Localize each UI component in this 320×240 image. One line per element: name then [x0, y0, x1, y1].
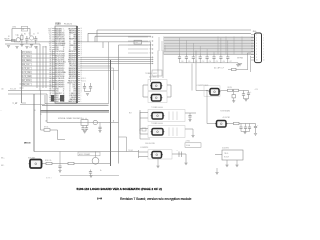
ground [244, 98, 247, 100]
svg-text:C53: C53 [202, 61, 205, 63]
label box [185, 143, 201, 148]
svg-text:8-44: 8-44 [97, 198, 103, 201]
svg-text:OE: OE [49, 95, 51, 97]
svg-text:14: 14 [69, 82, 71, 84]
svg-text:Revision 7 Board; version w/o: Revision 7 Board; version w/o encryption… [120, 197, 192, 201]
box T2 [148, 126, 185, 138]
svg-text:4 MHz: 4 MHz [12, 26, 16, 28]
svg-text:+: + [257, 125, 258, 127]
svg-text:B3: B3 [49, 82, 51, 84]
svg-text:20: 20 [63, 68, 65, 70]
svg-text:17: 17 [63, 62, 65, 64]
wire [139, 110, 141, 134]
ground [86, 93, 89, 95]
resistor R110 [232, 68, 237, 70]
capacitor C132 [189, 113, 191, 115]
svg-text:+5 VDC: +5 VDC [185, 141, 190, 143]
svg-text:10: 10 [256, 60, 258, 62]
wire [94, 36, 96, 42]
wire [185, 128, 193, 130]
svg-text:RC3/SCK: RC3/SCK [70, 76, 78, 78]
svg-text:Q1: Q1 [17, 35, 19, 37]
small box circuit [152, 70, 162, 76]
label box audio [78, 152, 100, 156]
svg-text:18: 18 [63, 64, 65, 66]
svg-text:32: 32 [69, 45, 71, 47]
svg-text:39: 39 [69, 30, 71, 32]
svg-text:22: 22 [69, 66, 71, 68]
wire [45, 46, 47, 88]
capacitor C140 [243, 91, 245, 94]
svg-text:D2: D2 [150, 45, 152, 47]
svg-text:26: 26 [69, 57, 71, 59]
wire [140, 112, 148, 114]
wire [185, 154, 187, 163]
wire [102, 42, 104, 48]
ground [225, 164, 228, 166]
bus double line [41, 110, 110, 112]
U100 pin stubs and numbers right [77, 28, 82, 103]
wire [41, 129, 45, 131]
opto U101 [150, 85, 151, 87]
ground [89, 175, 92, 177]
ground [58, 170, 61, 172]
microphone MK100 [29, 163, 30, 165]
svg-text:12: 12 [63, 51, 65, 53]
resistor R100 [12, 39, 16, 41]
bus internal verticals [218, 37, 242, 55]
svg-text:RB3/PGM: RB3/PGM [69, 39, 77, 41]
wire [20, 104, 45, 106]
svg-text:D4: D4 [49, 60, 51, 62]
svg-text:14: 14 [63, 55, 65, 57]
svg-text:16: 16 [69, 78, 71, 80]
junction [110, 122, 111, 123]
svg-text:CE: CE [49, 93, 51, 95]
inductor L1 [209, 91, 210, 93]
wire [241, 131, 250, 133]
wire [247, 53, 249, 70]
U100 pin names right column [67, 28, 77, 103]
transistor Q100 [16, 38, 20, 42]
svg-text:PIC16C74: PIC16C74 [64, 23, 72, 25]
svg-text:VSS: VSS [73, 49, 76, 51]
svg-text:FL100: FL100 [186, 145, 190, 147]
wire bus top1 [97, 29, 251, 31]
svg-text:C2: C2 [37, 33, 39, 35]
svg-text:C57: C57 [229, 61, 232, 63]
ground [191, 134, 194, 136]
transistor Q103 [92, 157, 99, 164]
svg-text:38: 38 [69, 32, 71, 34]
svg-text:40: 40 [69, 28, 71, 30]
svg-text:VDD: VDD [48, 28, 51, 30]
U100 outer pin net labels left [48, 28, 51, 103]
wire [42, 46, 44, 88]
svg-text:RB4: RB4 [73, 37, 76, 39]
wire [113, 68, 115, 90]
svg-text:16: 16 [63, 60, 65, 62]
wire [42, 163, 111, 165]
svg-text:RE2/CS: RE2/CS [71, 93, 77, 95]
svg-text:MIC-: MIC- [1, 165, 5, 167]
svg-text:Q2: Q2 [29, 33, 31, 35]
resistor R132 [44, 129, 50, 132]
capacitor C133 [98, 126, 101, 128]
wire [157, 159, 159, 166]
svg-text:26: 26 [63, 80, 65, 82]
wire [118, 45, 120, 164]
svg-text:D5: D5 [49, 62, 51, 64]
wire [207, 123, 256, 125]
wire [96, 30, 98, 42]
inductor L2 [215, 123, 216, 125]
wire [143, 84, 148, 86]
diode D1 [232, 95, 235, 98]
wire [5, 40, 16, 42]
svg-text:13: 13 [63, 53, 65, 55]
svg-text:15: 15 [69, 80, 71, 82]
wire long vertical mid [110, 60, 112, 166]
svg-text:35: 35 [69, 39, 71, 41]
resistor R120 [228, 89, 233, 91]
ground [188, 119, 191, 121]
svg-text:R2: R2 [24, 34, 26, 36]
svg-text:R9 10k: R9 10k [44, 126, 49, 128]
crystal Y100 box [21, 26, 27, 31]
wire [244, 98, 249, 100]
svg-text:TO SW: TO SW [128, 150, 133, 152]
wire [80, 56, 152, 58]
svg-text:R8 220: R8 220 [228, 87, 233, 89]
wire [80, 60, 152, 62]
wire [80, 63, 152, 65]
resistor R122 [234, 122, 240, 124]
box ISO2 [148, 92, 167, 103]
svg-text:C55: C55 [216, 61, 219, 63]
svg-text:C51: C51 [188, 61, 191, 63]
IC U100 body [55, 26, 77, 103]
svg-text:29: 29 [63, 87, 65, 89]
svg-text:C120 .1: C120 .1 [81, 78, 86, 80]
svg-text:34: 34 [69, 41, 71, 43]
svg-text:B+: B+ [100, 170, 102, 172]
svg-text:C1: C1 [33, 34, 35, 36]
svg-text:19: 19 [69, 72, 71, 74]
opto U102 [150, 97, 151, 99]
wire [87, 33, 89, 42]
ground [236, 64, 240, 66]
svg-text:CLK: CLK [48, 32, 51, 34]
capacitor C150 [59, 164, 61, 166]
svg-text:D7: D7 [49, 66, 51, 68]
svg-text:RE1/WR: RE1/WR [70, 95, 77, 97]
svg-text:28: 28 [69, 53, 71, 55]
wire [191, 64, 193, 91]
resistor R130 [46, 162, 52, 164]
wire [185, 112, 196, 114]
svg-text:23: 23 [63, 74, 65, 76]
connector table left edge [21, 50, 23, 103]
svg-text:WR: WR [49, 43, 51, 45]
svg-text:22: 22 [63, 72, 65, 74]
band pin ticks [128, 36, 154, 55]
wire [8, 93, 47, 95]
svg-text:28: 28 [63, 84, 65, 86]
svg-text:+: + [250, 92, 251, 94]
svg-text:32: 32 [63, 93, 65, 95]
wire [47, 122, 119, 124]
wire [196, 90, 249, 92]
svg-text:VSS: VSS [55, 49, 58, 51]
svg-text:15: 15 [63, 57, 65, 59]
svg-text:21: 21 [69, 68, 71, 70]
tick [20, 83, 24, 85]
svg-text:L3 FERRITE: L3 FERRITE [140, 147, 148, 149]
svg-text:C50: C50 [181, 61, 184, 63]
wire [60, 175, 119, 177]
wire [22, 102, 27, 104]
capacitor row C10x [178, 54, 232, 63]
svg-text:13: 13 [69, 84, 71, 86]
wire [11, 29, 13, 41]
box bottom double line [45, 103, 109, 105]
svg-text:RB4: RB4 [55, 101, 58, 103]
wire [59, 152, 61, 164]
wire [39, 44, 41, 91]
svg-text:17: 17 [69, 76, 71, 78]
ground [215, 171, 218, 173]
wire [82, 129, 84, 130]
wire long vertical [33, 94, 35, 152]
wire [234, 62, 238, 64]
svg-text:10: 10 [63, 47, 65, 49]
capacitor C120 [84, 83, 86, 86]
svg-text:T1 XFMR 600:600: T1 XFMR 600:600 [151, 107, 163, 109]
svg-text:B2: B2 [49, 41, 51, 43]
svg-text:R130 2.2k: R130 2.2k [45, 160, 52, 162]
label box [134, 40, 142, 44]
svg-text:18: 18 [69, 74, 71, 76]
U100 pin stubs and numbers left [50, 28, 55, 103]
ground [98, 130, 101, 132]
wire [85, 91, 91, 93]
box right edge [108, 42, 110, 104]
svg-text:31: 31 [69, 47, 71, 49]
svg-text:D0: D0 [49, 51, 51, 53]
svg-text:RB1: RB1 [55, 95, 58, 97]
capacitor C146 polarized [178, 152, 180, 158]
svg-text:D1: D1 [150, 41, 152, 43]
svg-text:RC5/SDO: RC5/SDO [69, 64, 77, 66]
ground [232, 100, 235, 102]
svg-text:VSS: VSS [55, 89, 58, 91]
wire [40, 112, 42, 130]
connector J100 pins [251, 35, 265, 62]
svg-text:D2: D2 [49, 55, 51, 57]
capacitor C144 [249, 124, 251, 127]
box left edge [44, 95, 46, 104]
svg-text:29: 29 [69, 51, 71, 53]
wire [36, 46, 38, 88]
wire [8, 90, 55, 92]
U100 dense bottom bars [51, 95, 54, 102]
connector table right edge [52, 50, 54, 88]
svg-text:Y1: Y1 [22, 29, 24, 31]
svg-text:B: B [35, 110, 36, 112]
winding ticks [168, 112, 170, 121]
svg-text:RB6/PGC: RB6/PGC [70, 32, 78, 34]
svg-text:D1: D1 [49, 53, 51, 55]
wire [34, 151, 139, 153]
wire [126, 137, 128, 152]
bus verticals to capacitor row [180, 38, 228, 54]
wire [5, 43, 40, 45]
svg-text:OSC1: OSC1 [72, 87, 76, 89]
ground [30, 44, 33, 46]
svg-text:12: 12 [69, 87, 71, 89]
svg-text:RB2: RB2 [55, 97, 58, 99]
wire [236, 160, 238, 165]
ground [238, 63, 242, 65]
net name rows [22, 51, 55, 86]
svg-text:OSC2: OSC2 [72, 84, 76, 86]
capacitor C101 [35, 36, 37, 38]
svg-text:MIC+: MIC+ [1, 158, 5, 160]
capacitor C131 [86, 125, 88, 127]
svg-text:B4: B4 [49, 84, 51, 86]
capacitor C141 polarized [248, 91, 250, 93]
svg-text:U100: U100 [55, 24, 61, 26]
svg-text:U101 4N35: U101 4N35 [149, 76, 156, 78]
ground [254, 133, 257, 135]
svg-text:11: 11 [63, 49, 65, 51]
wire VDD rail [14, 41, 151, 43]
wire [80, 65, 111, 67]
capacitor C130 [82, 125, 84, 127]
wire [172, 153, 186, 155]
capacitor ground bus [180, 62, 235, 64]
wire [39, 90, 42, 92]
wire [95, 152, 97, 158]
wire [216, 168, 218, 172]
svg-text:5100-110 PWB: 5100-110 PWB [145, 143, 155, 145]
band left edge wire [150, 42, 152, 82]
wire [195, 51, 197, 91]
svg-text:27: 27 [69, 55, 71, 57]
svg-text:D3: D3 [49, 57, 51, 59]
transistor Q101 [30, 36, 34, 40]
wire [162, 51, 164, 79]
box T1 [148, 110, 185, 122]
svg-text:RC4/SDI: RC4/SDI [70, 66, 77, 68]
svg-text:WE: WE [49, 97, 51, 99]
svg-text:5100-110 LOGIC BOARD VER A SCH: 5100-110 LOGIC BOARD VER A SCHEMATIC (PA… [77, 187, 162, 191]
ground [15, 46, 18, 48]
wire [119, 44, 152, 46]
svg-text:MCLR: MCLR [5, 38, 11, 40]
svg-text:C52: C52 [195, 61, 198, 63]
IC U100 right edge heavy [76, 26, 78, 103]
wire [80, 69, 119, 71]
box around L1 [204, 86, 220, 96]
wire [157, 51, 159, 79]
svg-text:RLY: RLY [129, 113, 132, 115]
svg-text:C54: C54 [209, 61, 212, 63]
svg-text:RST: RST [48, 30, 51, 32]
U100 pin number columns inside [63, 28, 71, 103]
ground [243, 131, 246, 133]
svg-text:B7: B7 [49, 91, 51, 93]
ground [184, 162, 187, 164]
resistor R121 [234, 89, 239, 91]
wire [206, 91, 208, 124]
svg-text:78L05: 78L05 [224, 153, 228, 155]
box ISO1 [148, 80, 167, 91]
resistor R131 [68, 162, 74, 164]
capacitor C121 [90, 83, 92, 86]
svg-text:11: 11 [69, 89, 71, 91]
svg-text:C56: C56 [223, 61, 226, 63]
wire [215, 154, 222, 156]
wire [57, 130, 59, 140]
wire [119, 136, 127, 138]
svg-text:D0: D0 [150, 37, 152, 39]
U100 pin names left column [55, 27, 66, 103]
svg-text:RB7/PGD: RB7/PGD [70, 30, 78, 32]
svg-text:25: 25 [63, 78, 65, 80]
svg-text:25: 25 [69, 60, 71, 62]
capacitor C100 [26, 36, 28, 38]
wire [140, 138, 150, 140]
junction [139, 129, 140, 130]
svg-text:33: 33 [69, 43, 71, 45]
svg-text:OSC2: OSC2 [153, 73, 157, 75]
wire [139, 112, 141, 139]
svg-text:20: 20 [69, 70, 71, 72]
svg-text:C121 .1: C121 .1 [81, 81, 86, 83]
bus band wires [164, 38, 254, 55]
wire bus top2 [88, 32, 251, 34]
wire bus top3 [95, 35, 151, 37]
svg-text:RB2: RB2 [73, 41, 76, 43]
svg-text:31: 31 [63, 91, 65, 93]
transformer T2 [151, 131, 152, 133]
resistor R101 [21, 35, 23, 39]
svg-text:NOTE 3: NOTE 3 [46, 177, 52, 179]
svg-text:30: 30 [69, 49, 71, 51]
svg-text:B5: B5 [49, 87, 51, 89]
svg-text:+12V: +12V [255, 89, 258, 91]
resonator Y101 [81, 120, 88, 126]
svg-text:B1: B1 [49, 39, 51, 41]
svg-text:21: 21 [63, 70, 65, 72]
svg-text:+: + [177, 150, 178, 152]
svg-text:T2 XFMR 600:600: T2 XFMR 600:600 [151, 123, 163, 125]
svg-text:27: 27 [63, 82, 65, 84]
wire [46, 94, 48, 123]
svg-text:RB0/INT: RB0/INT [70, 45, 76, 47]
svg-text:RB1: RB1 [73, 43, 76, 45]
wire [99, 123, 101, 128]
ground [83, 130, 86, 132]
svg-text:RD: RD [49, 45, 51, 47]
ground [156, 165, 159, 167]
winding ticks 2 [168, 128, 170, 137]
tick [20, 87, 24, 89]
capacitor C143 [245, 124, 247, 127]
svg-text:D3: D3 [150, 49, 152, 51]
